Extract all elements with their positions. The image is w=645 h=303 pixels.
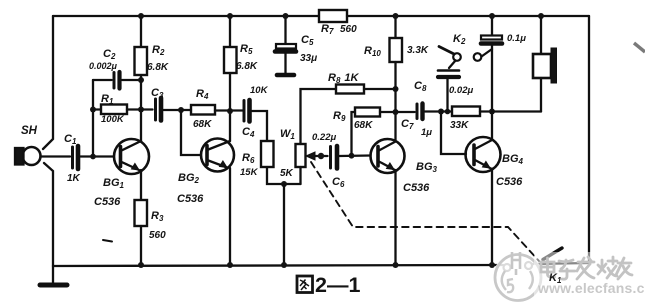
- svg-text:33K: 33K: [450, 120, 469, 131]
- node junction top rail C5: [283, 13, 289, 19]
- svg-text:W1: W1: [280, 128, 295, 141]
- svg-text:10K: 10K: [250, 85, 269, 96]
- svg-text:C536: C536: [496, 176, 523, 188]
- wire C1 to BG1 base: [81, 155, 115, 157]
- svg-text:560: 560: [149, 230, 166, 241]
- svg-text:68K: 68K: [193, 119, 212, 130]
- switch K2: [453, 53, 461, 61]
- node junction R6/W1 ground column: [281, 181, 287, 187]
- svg-text:560: 560: [340, 24, 357, 35]
- resistor R4: [191, 105, 215, 115]
- capacitor C4: [243, 101, 246, 122]
- node junction C7 / BG4 base / 33K: [438, 109, 444, 115]
- node junction BG2 collector / R5 / C4: [227, 108, 233, 114]
- svg-text:33μ: 33μ: [300, 53, 317, 64]
- capacitor C5 electrolytic: [284, 16, 286, 44]
- wire BG4 emitter down: [491, 169, 493, 266]
- watermark top right mark: [634, 43, 645, 52]
- wire BG4 base: [441, 112, 466, 155]
- node junction 33K right / K2 column / speaker: [489, 109, 495, 115]
- wire BG4 collector up: [491, 112, 493, 141]
- node junction R8 right: [393, 86, 399, 92]
- wire BG1 emitter down: [140, 170, 142, 200]
- capacitor C2: [93, 79, 112, 81]
- node junction BG2 emitter rail: [227, 262, 233, 268]
- transistor BG1: [114, 139, 149, 174]
- svg-text:6.8K: 6.8K: [236, 61, 258, 72]
- node junction base BG1 / R1 feedback: [90, 154, 96, 160]
- svg-text:SH: SH: [21, 125, 38, 137]
- node junction 0.02u column: [445, 109, 451, 115]
- node junction top rail R10: [393, 13, 399, 19]
- node junction ground rail: [281, 262, 287, 268]
- svg-text:K2: K2: [453, 33, 466, 46]
- microphone SH1 body: [23, 147, 41, 165]
- watermark logo circle: [493, 252, 543, 303]
- svg-text:R3: R3: [151, 210, 164, 223]
- svg-text:15K: 15K: [240, 167, 259, 178]
- resistor R2: [140, 16, 142, 47]
- svg-text:C536: C536: [403, 182, 430, 194]
- node junction BG3 emitter rail: [393, 262, 399, 268]
- resistor R10: [394, 16, 396, 38]
- wire R6/W1 to ground rail: [283, 184, 285, 265]
- svg-text:0.02μ: 0.02μ: [449, 85, 473, 96]
- resistor R7 (in top rail): [319, 10, 347, 22]
- transistor BG2: [201, 139, 234, 172]
- svg-text:R5: R5: [240, 43, 253, 56]
- svg-text:R4: R4: [196, 88, 209, 101]
- capacitor C6: [329, 147, 332, 169]
- caption 图 2-1: [297, 276, 313, 293]
- stray scan mark: [103, 240, 112, 242]
- node junction top rail R2: [138, 13, 144, 19]
- node junction R1/R2/C3/BG1 collector: [138, 107, 144, 113]
- wire bottom ground rail: [53, 265, 503, 266]
- svg-text:R6: R6: [242, 152, 255, 165]
- watermark text halo: [534, 252, 645, 298]
- wire top supply rail right of R7: [347, 15, 589, 17]
- svg-text:6.8K: 6.8K: [147, 62, 169, 73]
- capacitor 0.1u top: [491, 16, 493, 35]
- capacitor C3: [141, 108, 153, 110]
- node junction BG4 emitter rail: [489, 262, 495, 268]
- svg-text:C3: C3: [151, 87, 164, 100]
- wire BG2 base: [181, 110, 201, 155]
- dashed link W1 to K1: [311, 162, 539, 261]
- svg-text:C1: C1: [64, 133, 77, 146]
- resistor R9: [352, 112, 356, 156]
- transistor BG4: [466, 137, 501, 172]
- resistor R5: [229, 16, 231, 47]
- svg-text:C536: C536: [177, 193, 204, 205]
- wire BG2 collector up: [229, 111, 231, 141]
- wire BG3 emitter down: [394, 170, 396, 265]
- wire top supply rail left of R7: [53, 15, 319, 17]
- svg-text:C4: C4: [242, 126, 255, 139]
- svg-text:1μ: 1μ: [421, 127, 432, 138]
- svg-text:www.elecfans.com: www.elecfans.com: [537, 280, 645, 296]
- wire left border lower (microphone to ground rail): [44, 163, 53, 266]
- node junction top rail K2: [489, 13, 495, 19]
- svg-text:0.1μ: 0.1μ: [507, 33, 526, 44]
- resistor R11 33K: [441, 110, 452, 112]
- loudspeaker: [540, 16, 542, 55]
- svg-text:2—1: 2—1: [315, 273, 360, 297]
- resistor R8: [336, 85, 364, 94]
- node junction R9 left / BG3 base: [349, 153, 355, 159]
- resistor R3: [135, 200, 148, 226]
- wire BG3 collector up: [394, 112, 396, 142]
- svg-text:C6: C6: [332, 176, 345, 189]
- node junction top rail speaker: [538, 13, 544, 19]
- potentiometer W1 wiper arrow: [313, 155, 328, 157]
- node junction R9 right / C7 / BG3 collector: [393, 109, 399, 115]
- svg-text:R7: R7: [321, 23, 334, 36]
- node junction C2/R2: [138, 77, 144, 83]
- svg-text:100K: 100K: [101, 114, 125, 125]
- wire bottom rail right segment after K1: [532, 263, 589, 264]
- svg-text:R2: R2: [152, 44, 165, 57]
- wire left border upper (to microphone): [43, 16, 53, 149]
- wire microphone output to C1: [41, 155, 70, 157]
- svg-text:C8: C8: [414, 80, 427, 93]
- svg-text:BG4: BG4: [502, 153, 524, 166]
- wire output node to speaker column: [492, 110, 541, 112]
- node junction C3/R4/BG2 base: [178, 107, 184, 113]
- node junction R1 left: [90, 107, 96, 113]
- svg-text:R1: R1: [101, 93, 114, 106]
- svg-text:C7: C7: [401, 118, 414, 131]
- transistor BG3: [371, 139, 405, 173]
- resistor R1: [93, 108, 101, 110]
- svg-text:R81K: R81K: [328, 72, 360, 85]
- svg-text:BG1: BG1: [103, 177, 125, 190]
- svg-text:R9: R9: [333, 110, 346, 123]
- svg-text:BG3: BG3: [416, 161, 438, 174]
- svg-text:3.3K: 3.3K: [407, 45, 429, 56]
- node junction top rail R5: [227, 13, 233, 19]
- wire BG2 emitter down: [229, 168, 231, 265]
- svg-text:R10: R10: [364, 45, 381, 58]
- svg-text:C5: C5: [301, 34, 314, 47]
- svg-text:0.22μ: 0.22μ: [312, 132, 336, 143]
- svg-text:5K: 5K: [280, 168, 294, 179]
- node junction R3 bottom rail: [138, 262, 144, 268]
- switch K1: [504, 264, 511, 271]
- resistor R6: [261, 141, 274, 167]
- capacitor C1: [71, 147, 74, 168]
- wire BG1 collector up: [140, 110, 142, 142]
- svg-text:C536: C536: [94, 196, 121, 208]
- capacitor C8 0.02u: [449, 61, 456, 69]
- potentiometer W1 body: [296, 144, 306, 167]
- ground symbol: [52, 266, 54, 284]
- svg-text:C2: C2: [103, 48, 116, 61]
- capacitor C7: [396, 111, 415, 113]
- wire right border: [588, 16, 590, 263]
- svg-text:BG2: BG2: [178, 172, 200, 185]
- svg-text:68K: 68K: [354, 120, 373, 131]
- svg-text:0.002μ: 0.002μ: [89, 61, 118, 71]
- wire R1/C2 column: [92, 80, 94, 157]
- node junction wiper / C6 / K1 link: [318, 153, 324, 159]
- svg-text:1K: 1K: [67, 173, 81, 184]
- watermark text dianzifashaoyou: [541, 257, 632, 279]
